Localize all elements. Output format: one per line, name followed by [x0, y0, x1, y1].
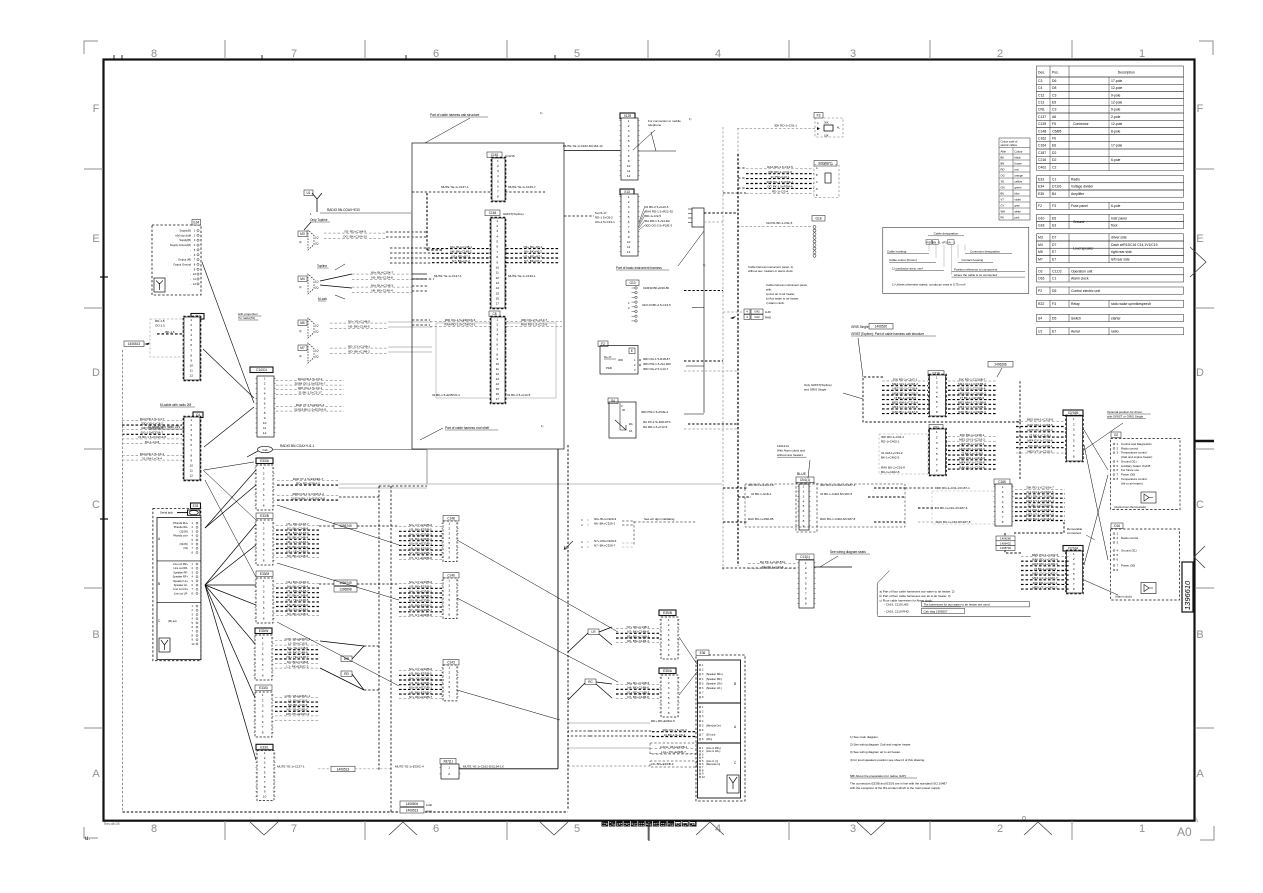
svg-text:3: 3: [1073, 428, 1075, 432]
svg-text:7: 7: [496, 347, 498, 351]
svg-text:1401214: 1401214: [777, 444, 789, 448]
svg-text:D8: D8: [1052, 86, 1056, 90]
svg-text:16: 16: [496, 392, 500, 396]
svg-text:C13(1): C13(1): [800, 555, 810, 559]
labels 1406504 1406513 bottom: [400, 801, 424, 807]
svg-text:B: B: [1196, 629, 1203, 641]
svg-text:Output Ground: Output Ground: [173, 262, 191, 266]
wire rows at CN1 right: [820, 483, 856, 487]
svg-text:1406504: 1406504: [406, 802, 419, 806]
svg-text:3: 3: [263, 532, 265, 536]
svg-text:N3- YE+C145-C: N3- YE+C145-C: [287, 708, 310, 712]
svg-text:2: 2: [448, 527, 450, 531]
svg-text:1396749: 1396749: [339, 581, 352, 585]
svg-text:ND- GY+C148-1: ND- GY+C148-1: [348, 344, 370, 348]
svg-text:E33: E33: [1038, 178, 1044, 182]
svg-text:OG- BK+C164-10: OG- BK+C164-10: [343, 235, 367, 239]
connector X87: [440, 759, 456, 765]
svg-text:31 BK-1-C402.5/C187-5: 31 BK-1-C402.5/C187-5: [820, 492, 853, 496]
svg-text:C148: C148: [447, 517, 455, 521]
svg-text:BN: BN: [1001, 162, 1005, 166]
connector E33/L: [256, 744, 273, 750]
svg-text:4: 4: [668, 633, 670, 637]
svg-text:30K RD-1+C167-1: 30K RD-1+C167-1: [893, 377, 918, 381]
svg-text:RAK BU-1-C2/16B-3: RAK BU-1-C2/16B-3: [958, 410, 986, 414]
svg-text:31 BK-2.5+C13-5: 31 BK-2.5+C13-5: [507, 393, 531, 397]
svg-text:BLUE: BLUE: [797, 472, 807, 476]
wire rows at X13 left: [595, 211, 615, 224]
svg-text:RAK BU-1+C167-8: RAK BU-1+C167-8: [892, 410, 918, 414]
svg-text:5: 5: [448, 598, 450, 602]
svg-text:HRX RD-1+C402-3: HRX RD-1+C402-3: [1032, 562, 1058, 566]
svg-text:N3- BK+E33/B-5: N3- BK+E33/B-5: [409, 585, 432, 589]
wire rows at M4: [352, 270, 412, 279]
svg-text:12: 12: [189, 474, 193, 478]
svg-text:11: 11: [627, 169, 630, 173]
svg-text:7: 7: [263, 498, 265, 502]
svg-text:E7: E7: [1052, 330, 1056, 334]
wire rows at M3: [324, 229, 386, 238]
svg-text:RAK BU-1+C91-8/C187-8: RAK BU-1+C91-8/C187-8: [936, 520, 971, 524]
svg-text:N6+ BU+C154-7: N6+ BU+C154-7: [371, 270, 394, 274]
svg-text:4: 4: [448, 536, 450, 540]
svg-text:2: 2: [668, 681, 670, 685]
svg-text:6: 6: [668, 701, 670, 705]
svg-text:5: 5: [262, 714, 264, 718]
coax vertical inside cab box: [411, 211, 413, 275]
svg-text:Contact housing: Contact housing: [962, 258, 984, 262]
mute wire and labels: [277, 764, 305, 768]
svg-text:Abbr: Abbr: [1001, 150, 1007, 154]
svg-text:See wiring diagram seats: See wiring diagram seats: [830, 550, 866, 554]
connector X2/16A: [1063, 546, 1083, 552]
svg-text:1: 1: [1139, 48, 1145, 60]
connector X2/16B: [1063, 410, 1083, 416]
svg-text:2: 2: [448, 671, 450, 675]
svg-text:(clock-timer-thermostats): (clock-timer-thermostats): [1114, 505, 1146, 509]
svg-text:a) Part of floor cable harness: a) Part of floor cable harnesses aux wat…: [880, 590, 955, 594]
svg-text:4): 4): [299, 285, 302, 289]
svg-text:30D OG-1.5+E36/C6-3: 30D OG-1.5+E36/C6-3: [445, 318, 476, 322]
svg-text:N4+ YE+E33/B-3: N4+ YE+E33/B-3: [409, 532, 432, 536]
mute wires at C162: [441, 185, 469, 189]
cable designation legend: [883, 227, 1029, 293]
svg-text:1Q: 1Q: [315, 349, 318, 353]
svg-text:N4- BU+E33/B-4: N4- BU+E33/B-4: [409, 594, 432, 598]
svg-text:12: 12: [263, 431, 267, 435]
svg-text:The harnesses for aux water to: The harnesses for aux water to air heate…: [924, 603, 991, 607]
svg-text:N7- BK+N7-2: N7- BK+N7-2: [524, 259, 542, 263]
svg-text:ME5 WH-1+C218-6: ME5 WH-1+C218-6: [1027, 418, 1054, 422]
svg-text:2: 2: [803, 490, 805, 494]
svg-text:4: 4: [263, 537, 265, 541]
coax wire RADIO BN-COAX+U1-1: [273, 449, 427, 451]
svg-text:Ground (31): Ground (31): [1121, 460, 1137, 464]
svg-text:30D: 30D: [618, 358, 623, 362]
svg-text:17: 17: [496, 302, 500, 306]
note part of cable harness cab structure: [430, 113, 488, 117]
svg-text:3: 3: [805, 571, 807, 575]
wires C218 left stubs: [905, 487, 918, 489]
svg-text:A6: A6: [1052, 115, 1056, 119]
note part of basic instrument harness: [616, 266, 669, 270]
svg-text:N7- BK+C148-8: N7- BK+C148-8: [287, 526, 309, 530]
svg-text:2: 2: [936, 381, 938, 385]
svg-text:N7- BK+N7-2: N7- BK+N7-2: [452, 259, 470, 263]
svg-text:31 BK-1+C2/16A-6: 31 BK-1+C2/16A-6: [1027, 503, 1053, 507]
brace label RC: [585, 679, 596, 685]
svg-text:6: 6: [264, 775, 266, 779]
ruler dividers top: [224, 40, 226, 59]
svg-text:MF4 GY-1+C218-8: MF4 GY-1+C218-8: [1027, 439, 1052, 443]
svg-text:E5: E5: [1052, 216, 1056, 220]
svg-text:CN1(1): CN1(1): [800, 478, 810, 482]
svg-text:5: 5: [263, 542, 265, 546]
svg-text:1: 1: [448, 766, 450, 770]
svg-text:12-pole: 12-pole: [1111, 101, 1122, 105]
svg-text:4: 4: [263, 595, 265, 599]
svg-text:BU: BU: [1001, 192, 1005, 196]
svg-text:6: 6: [1073, 444, 1075, 448]
svg-text:31/918 BK-1 5+E33/A-8: 31/918 BK-1 5+E33/A-8: [294, 407, 326, 411]
svg-text:2: 2: [497, 164, 499, 168]
wire rows at S4: [641, 410, 669, 414]
svg-text:GRIST(Topline): Part of cable: GRIST(Topline): Part of cable harness ca…: [851, 332, 924, 336]
svg-text:C1: C1: [1052, 277, 1056, 281]
svg-text:N5- BK+C148-4: N5- BK+C148-4: [287, 536, 309, 540]
svg-text:1: 1: [262, 693, 264, 697]
svg-text:E33/D: E33/D: [259, 686, 269, 690]
svg-text:30D OG-2.5+C13-7: 30D OG-2.5+C13-7: [521, 318, 547, 322]
coax wire RADIO 5N-COAX+E33: [320, 212, 412, 214]
svg-text:See wir dgm Cab&Eng.: See wir dgm Cab&Eng.: [644, 517, 675, 521]
svg-text:8: 8: [448, 613, 450, 617]
svg-text:D6: D6: [1052, 79, 1056, 83]
svg-text:JT BK-1+C218-5: JT BK-1+C218-5: [894, 396, 917, 400]
note with proportion: [238, 312, 261, 320]
svg-text:3: 3: [496, 328, 498, 332]
svg-text:MUTE YE-1+C137-1: MUTE YE-1+C137-1: [441, 185, 469, 189]
svg-text:8: 8: [1073, 587, 1075, 591]
svg-text:X2/16B: X2/16B: [1068, 411, 1078, 415]
svg-text:7: 7: [264, 406, 266, 410]
bold dashed path to X2/16A: [1014, 522, 1064, 533]
svg-text:N6- BK+C148-4: N6- BK+C148-4: [371, 289, 393, 293]
svg-text:12: 12: [193, 282, 196, 286]
svg-text:E35: E35: [1038, 192, 1044, 196]
svg-text:N3- BK+C148-2: N3- BK+C148-2: [287, 612, 309, 616]
svg-text:7: 7: [262, 725, 264, 729]
svg-text:1398746: 1398746: [1000, 546, 1011, 550]
svg-text:MUTE YE-1+C162-D/C164-1X: MUTE YE-1+C162-D/C164-1X: [463, 764, 504, 768]
corner trim mark bottom-right: [1200, 826, 1214, 840]
svg-text:10: 10: [189, 464, 193, 468]
svg-text:E6: E6: [1052, 144, 1056, 148]
svg-text:Operation unit: Operation unit: [1071, 270, 1092, 274]
svg-text:with GRIST or GRIS Single: with GRIST or GRIS Single: [1107, 414, 1143, 418]
svg-text:N5- BK+E33/B-2: N5- BK+E33/B-2: [409, 690, 432, 694]
svg-text:1406266: 1406266: [1000, 537, 1011, 541]
dashed bus verticals center: [722, 127, 724, 570]
svg-text:RADIO 5N-COAX+E33: RADIO 5N-COAX+E33: [327, 208, 360, 212]
svg-text:GRIST(Topline): GRIST(Topline): [503, 212, 524, 216]
svg-text:N6+ BU+C329-3: N6+ BU+C329-3: [594, 517, 617, 521]
svg-text:OG-2 5+C13-1: OG-2 5+C13-1: [595, 220, 615, 224]
svg-text:N4+ BU+C148-3: N4+ BU+C148-3: [286, 580, 309, 584]
svg-text:N4+ YE+E33/B-3: N4+ YE+E33/B-3: [409, 676, 432, 680]
svg-text:(Cab and engine heater): (Cab and engine heater): [1121, 455, 1152, 459]
svg-text:-: -: [190, 268, 191, 271]
svg-text:C: C: [92, 499, 100, 511]
svg-text:3: 3: [936, 385, 938, 389]
svg-text:B4: B4: [1052, 192, 1056, 196]
svg-text:HRX PP-1-C2/16B-3: HRX PP-1-C2/16B-3: [958, 391, 986, 395]
svg-text:E5: E5: [1052, 101, 1056, 105]
svg-text:7: 7: [448, 608, 450, 612]
labels 1406266 1406432 1398746: [996, 536, 1015, 541]
svg-text:8: 8: [190, 353, 192, 357]
junction rect right of X13: [692, 208, 704, 227]
bold dashed wire path at C164: [426, 193, 428, 250]
svg-text:Alarm clock: Alarm clock: [1071, 277, 1089, 281]
svg-text:N6- BK+C329-1: N6- BK+C329-1: [594, 522, 616, 526]
svg-text:4: 4: [496, 333, 498, 337]
footnote box floor cable harnesses: [877, 571, 889, 616]
svg-text:Connector: Connector: [1073, 122, 1090, 126]
svg-text:OG: OG: [1001, 174, 1005, 178]
svg-text:N7+ RD+N7-1: N7+ RD+N7-1: [523, 254, 542, 258]
svg-text:L2- GN+C16-5: L2- GN+C16-5: [288, 641, 308, 645]
svg-text:5: 5: [668, 638, 670, 642]
svg-text:2-pole: 2-pole: [1111, 115, 1121, 119]
svg-text:8: 8: [805, 597, 807, 601]
svg-text:N1+ RD+C14B-7: N1+ RD+C14B-7: [627, 690, 650, 694]
svg-text:(Line in LR+): (Line in LR+): [706, 750, 721, 753]
svg-text:and GRIS Single: and GRIS Single: [804, 387, 827, 391]
svg-text:F2: F2: [1038, 204, 1042, 208]
svg-text:JT BK-1-C2/16B-5: JT BK-1-C2/16B-5: [960, 396, 985, 400]
svg-text:4: 4: [262, 652, 264, 656]
svg-text:C187: C187: [1038, 151, 1046, 155]
svg-text:Phande RH-: Phande RH-: [174, 525, 188, 529]
svg-text:RA RD-1.5+C13-6: RA RD-1.5+C13-6: [643, 425, 668, 429]
aerial U1: [304, 190, 313, 196]
control unit R30 block: [814, 161, 837, 167]
svg-text:((31)): ((31)): [706, 738, 712, 741]
leader to basic instrument harness: [678, 231, 704, 266]
svg-text:DA-1-C4-8: DA-1-C4-8: [145, 440, 160, 444]
svg-text:2: 2: [190, 423, 192, 427]
colour code table: [999, 138, 1030, 220]
svg-text:C165: C165: [998, 480, 1006, 484]
svg-text:Rev:db.05: Rev:db.05: [104, 822, 120, 826]
svg-text:10: 10: [496, 362, 500, 366]
svg-text:RADIO BN-COAX+U1-1: RADIO BN-COAX+U1-1: [280, 444, 315, 448]
clock icon O16: [1141, 583, 1156, 594]
svg-text:RAK BU-1+C218-8: RAK BU-1+C218-8: [959, 465, 985, 469]
svg-text:17-pole: 17-pole: [1111, 79, 1122, 83]
svg-text:5: 5: [668, 696, 670, 700]
svg-text:6: 6: [805, 586, 807, 590]
dashed box around C216: [863, 377, 1020, 422]
note M-cable with radio 2M: [160, 403, 195, 407]
note see wiring dgm Cab and Eng: [644, 517, 675, 521]
svg-text:4: 4: [936, 390, 938, 394]
svg-text:Line out LR+: Line out LR+: [173, 587, 188, 591]
svg-text:C13: C13: [1038, 101, 1044, 105]
small border ticks top: [113, 55, 115, 60]
brace label LR: [588, 629, 599, 635]
connector E35/A: [659, 668, 676, 674]
svg-text:E34: E34: [1038, 185, 1044, 189]
arrow to C8: [564, 541, 573, 550]
wire rows at E33/A: [277, 477, 339, 486]
svg-text:ME5 VT-1+C2/16A-5: ME5 VT-1+C2/16A-5: [1026, 512, 1054, 516]
svg-text:Supply(II): Supply(II): [179, 229, 191, 233]
svg-text:7: 7: [291, 48, 297, 60]
svg-text:5: 5: [574, 823, 580, 835]
border tick marks left: [100, 276, 108, 278]
svg-text:-: -: [190, 273, 191, 276]
svg-text:5+C5-17: 5+C5-17: [595, 211, 607, 215]
svg-text:6-pole: 6-pole: [1111, 204, 1121, 208]
svg-text:C1: C1: [1052, 178, 1056, 182]
svg-text:1: 1: [497, 159, 499, 163]
svg-text:C143: C143: [447, 661, 455, 665]
wire rows at C164 left: [432, 245, 490, 263]
svg-text:30K RD-1+C402-1/C187-1: 30K RD-1+C402-1/C187-1: [820, 483, 856, 487]
svg-text:E34: E34: [193, 221, 199, 225]
svg-text:2: 2: [263, 471, 265, 475]
svg-text:Voltage divider: Voltage divider: [1071, 185, 1094, 189]
svg-text:YD- RD+C164-9: YD- RD+C164-9: [344, 229, 366, 233]
svg-text:without aux. heaters or alarm: without aux. heaters or alarm clock: [748, 269, 793, 273]
svg-text:LCL+ PK+E33/B-7: LCL+ PK+E33/B-7: [661, 750, 686, 754]
connector C216: [928, 371, 944, 377]
svg-text:14: 14: [496, 382, 500, 386]
svg-text:6: 6: [497, 184, 499, 188]
svg-text:M5: M5: [1038, 250, 1043, 254]
svg-text:3: 3: [448, 675, 450, 679]
svg-text:R30(BP1): R30(BP1): [819, 162, 833, 166]
svg-text:E33: E33: [193, 504, 199, 508]
svg-text:30K RD-1+C402-1: 30K RD-1+C402-1: [1033, 581, 1058, 585]
svg-text:9-pole: 9-pole: [1111, 93, 1121, 97]
svg-text:Supply Ground(II): Supply Ground(II): [170, 243, 191, 247]
svg-text:C164: C164: [489, 211, 497, 215]
svg-text:12: 12: [496, 372, 500, 376]
svg-text:N6+ BU+C148-1: N6+ BU+C148-1: [450, 245, 473, 249]
svg-text:11: 11: [496, 271, 499, 275]
svg-text:N3+ YE+C148-5: N3+ YE+C148-5: [287, 549, 309, 553]
leader line mobile telephone: [651, 132, 656, 151]
svg-text:14: 14: [496, 286, 500, 290]
svg-text:12: 12: [627, 250, 631, 254]
svg-text:E33/A: E33/A: [260, 459, 270, 463]
fold marks bottom: [250, 822, 278, 835]
connector E33/A: [256, 458, 273, 464]
svg-text:7: 7: [190, 448, 192, 452]
svg-text:without aux heaters: without aux heaters: [777, 453, 804, 457]
svg-text:6: 6: [263, 548, 265, 552]
svg-text:12: 12: [496, 276, 500, 280]
svg-text:2Q: 2Q: [315, 355, 318, 359]
labels 1396749 1396598 on bus: [334, 580, 357, 586]
svg-text:Cab: Cab: [262, 448, 268, 452]
svg-text:C3: C3: [1052, 108, 1056, 112]
svg-text:8: 8: [262, 731, 264, 735]
svg-text:ME5 WH-1+C218-6: ME5 WH-1+C218-6: [959, 456, 986, 460]
svg-text:8: 8: [803, 519, 805, 523]
svg-text:3: 3: [496, 229, 498, 233]
svg-text:RAK BU-1+R30-85: RAK BU-1+R30-85: [748, 517, 774, 521]
svg-text:10: 10: [189, 364, 193, 368]
svg-text:1: 1: [803, 485, 805, 489]
svg-text:4L1 GN-1+C2/16A-5: 4L1 GN-1+C2/16A-5: [1026, 490, 1054, 494]
svg-text:RD-1+C402-1: RD-1+C402-1: [881, 440, 900, 444]
svg-text:5: 5: [628, 215, 630, 219]
svg-text:1): 1): [541, 424, 543, 428]
svg-text:D5: D5: [1052, 289, 1056, 293]
svg-text:300M GN-1 5-C34/C4-2: 300M GN-1 5-C34/C4-2: [292, 492, 324, 496]
svg-text:8: 8: [1002, 520, 1004, 524]
svg-text:ME1 GY-1+C402-2: ME1 GY-1+C402-2: [1032, 572, 1058, 576]
sheet border frame: [104, 60, 1195, 821]
svg-text:C162: C162: [491, 153, 499, 157]
svg-text:1: 1: [496, 219, 498, 223]
svg-text:ME1 GN-1-C2/16B-2: ME1 GN-1-C2/16B-2: [958, 382, 986, 386]
mute rows at C164: [434, 274, 462, 278]
svg-text:ME5 WH-1+C402-5: ME5 WH-1+C402-5: [1032, 553, 1059, 557]
svg-text:6: 6: [1073, 577, 1075, 581]
svg-text:7: 7: [497, 190, 499, 194]
svg-text:4: 4: [936, 447, 938, 451]
svg-text:2Q: 2Q: [315, 242, 318, 246]
svg-text:F5: F5: [1052, 122, 1056, 126]
svg-text:7: 7: [936, 463, 938, 467]
left big dashed boundary: [122, 350, 124, 812]
svg-text:Cable harness instrument panel: Cable harness instrument panel,: [766, 283, 808, 287]
note mobile telephone: [648, 119, 681, 127]
svg-text:D2: D2: [1052, 158, 1056, 162]
svg-text:7: 7: [668, 706, 670, 710]
connector C8: [489, 311, 500, 317]
svg-text:LR: LR: [591, 630, 596, 634]
svg-text:30D OG-1 5+C3-1: 30D OG-1 5+C3-1: [298, 386, 323, 390]
svg-text:5: 5: [263, 487, 265, 491]
svg-text:4: 4: [1073, 567, 1075, 571]
svg-text:4: 4: [668, 691, 670, 695]
svg-text:6: 6: [263, 493, 265, 497]
svg-text:LD- BN+E33/B-2: LD- BN+E33/B-2: [651, 762, 674, 766]
svg-text:1: 1: [190, 418, 192, 422]
ruler dividers right: [1195, 168, 1214, 170]
svg-text:3: 3: [262, 647, 264, 651]
svg-text:4: 4: [190, 333, 192, 337]
svg-text:11: 11: [190, 369, 193, 373]
svg-text:orange: orange: [1015, 174, 1024, 178]
svg-text:Part of basic instrument harne: Part of basic instrument harness: [616, 266, 662, 270]
svg-text:8: 8: [668, 711, 670, 715]
svg-text:F3: F3: [1052, 302, 1056, 306]
ground G10: [626, 280, 639, 286]
svg-text:2Q: 2Q: [315, 286, 318, 290]
svg-text:G42: G42: [754, 310, 760, 314]
fold mark right border chevron in: [1194, 546, 1205, 568]
svg-text:No.17: No.17: [604, 355, 612, 359]
svg-text:RAK RD-1+C402-4: RAK RD-1+C402-4: [1032, 558, 1058, 562]
svg-text:RA RD-1+C13-6: RA RD-1+C13-6: [762, 565, 784, 569]
